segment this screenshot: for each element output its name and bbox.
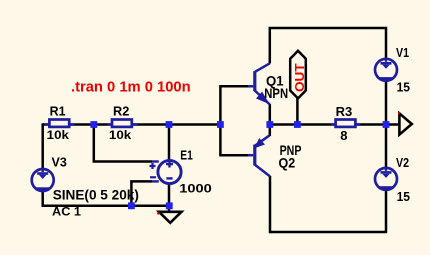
spice directive .tran [71,79,191,95]
svg-text:R2: R2 [113,104,129,118]
value NPN of Q1 (drawn before flag so flag clips it) [264,85,288,101]
wire OUT flag lead [296,98,299,125]
wire V2 bottom loop [270,190,386,232]
ground [159,212,182,223]
label V2 [396,156,409,170]
junction node A R1-R2 [90,121,97,128]
svg-text:Q2: Q2 [279,154,296,170]
value 10k of R1 [47,128,70,142]
svg-text:15: 15 [397,189,410,204]
transistor Q2 PNP [248,135,270,176]
wire V1 bottom lead [385,81,388,124]
label R2 [113,104,129,118]
svg-text:SINE(0 5 20k): SINE(0 5 20k) [53,186,139,202]
wire E1 minus control to ground rail [131,181,152,205]
wire bases vertical with stubs to Q1 and Q2 [220,86,248,155]
value 1000 of E1 [179,181,212,195]
voltage source V2 [375,167,397,190]
junction V1 V2 port node [383,121,390,128]
value AC 1 of V3 [52,205,81,219]
junction emitters output node [266,121,273,128]
resistor R1 [45,120,75,127]
junction bases node [217,121,224,128]
wire Q2 collector lead [269,176,272,233]
label Q1 [266,73,284,89]
svg-text:R3: R3 [336,105,353,119]
wire Q2 emitter lead [269,125,272,137]
value 15 of V2 [397,189,410,204]
voltage source V3 [32,168,54,191]
wire Q1 emitter lead [269,104,272,125]
output port arrow [399,113,411,134]
vcvs E1 [150,160,182,183]
resistor R2 [108,120,138,127]
svg-text:OUT: OUT [292,63,307,92]
wire V3 bottom lead [41,191,44,206]
wire port stub [386,123,399,126]
value 10k of R2 [109,128,132,142]
svg-text:10k: 10k [109,128,132,142]
wire output rail [270,123,386,126]
svg-text:10k: 10k [47,128,70,142]
wire top loop Q1 collector to V1 top [270,28,386,64]
junction E1 minus control at ground rail [128,202,135,209]
value 8 of R3 [340,128,347,143]
label V1 [396,46,409,60]
net flag OUT [290,51,307,99]
junction node B E1 top [166,121,173,128]
red anchor dot at ground [157,212,159,214]
red anchor dot at port [398,112,400,114]
junction OUT flag node [294,121,301,128]
label E1 [180,148,193,162]
resistor R3 [331,120,361,127]
label Q2 [279,154,296,170]
svg-text:15: 15 [397,79,410,94]
label R3 [336,105,353,119]
voltage source V1 [375,58,397,81]
label V3 [52,156,67,170]
value SINE of V3 [53,186,139,202]
junction E1 bottom at ground [166,202,173,209]
svg-text:V3: V3 [52,156,67,170]
svg-text:V1: V1 [396,46,409,60]
wire V3 top lead [41,123,44,169]
wire V2 top lead [385,125,388,168]
value PNP of Q2 [280,142,302,158]
value 15 of V1 [397,79,410,94]
wire node A down to E1 plus control [94,125,152,162]
svg-text:E1: E1 [180,148,193,162]
svg-text:1000: 1000 [179,181,212,195]
label R1 [50,105,66,119]
wire input rail through R1 R2 to bases node [43,123,221,126]
wire E1 bottom lead to ground [168,184,171,213]
svg-text:R1: R1 [50,105,66,119]
svg-text:Q1: Q1 [266,73,284,89]
transistor Q1 NPN [248,63,270,104]
svg-text:8: 8 [340,128,347,143]
svg-text:.tran 0 1m 0 100n: .tran 0 1m 0 100n [71,79,191,95]
svg-text:V2: V2 [396,156,409,170]
wire ground rail V3 to E1 [42,205,170,208]
wire E1 top lead [168,125,171,162]
